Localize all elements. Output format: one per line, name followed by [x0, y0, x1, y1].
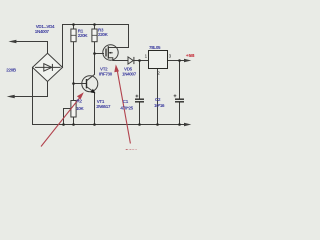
- capacitor C1 plates: [135, 99, 144, 102]
- 220V input arrow top: [8, 40, 16, 44]
- node rail emitter: [93, 123, 96, 126]
- diode VD5: [128, 57, 134, 64]
- resistor R3 body: [92, 29, 97, 42]
- node top rail R3: [93, 23, 96, 26]
- wire R3 column (top rail to gate node to collector): [94, 25, 96, 75]
- svg-text:+5В: +5В: [186, 53, 195, 59]
- wire DC- vertical from bridge left vertex to bottom rail: [32, 67, 34, 124]
- wire top rail: [63, 24, 129, 26]
- svg-text:10K: 10K: [76, 106, 84, 111]
- MOSFET VT2 channel bar: [107, 46, 109, 58]
- node +5V / C2: [178, 59, 181, 62]
- wire base lead: [74, 83, 87, 85]
- resistor R1 mid tick: [71, 34, 76, 36]
- wire 220V top lead: [12, 42, 48, 54]
- ground rail output arrow: [184, 123, 191, 127]
- wire regulator output: [168, 60, 187, 62]
- svg-text:2N6517: 2N6517: [96, 104, 111, 109]
- MOSFET VT2 substrate arrow: [109, 52, 113, 54]
- wire emitter column to ground rail: [94, 93, 96, 125]
- resistor R3 mid tick: [92, 34, 97, 36]
- svg-text:220K: 220K: [78, 33, 89, 38]
- transistor VT1 emitter with arrow: [87, 87, 94, 92]
- svg-text:220K: 220K: [98, 32, 109, 37]
- svg-text:R2: R2: [77, 98, 83, 103]
- 220V input arrow bottom: [7, 95, 15, 99]
- capacitor C1 polarity plus: [136, 95, 139, 98]
- MOSFET VT2 drain inner lead: [108, 47, 116, 49]
- node VD5 cathode / C1: [138, 59, 141, 62]
- node rail wiper: [62, 123, 65, 126]
- svg-text:IRF730: IRF730: [99, 72, 113, 77]
- wire C2 column: [179, 61, 181, 125]
- svg-text:220В: 220В: [6, 68, 17, 73]
- +5V output arrow: [184, 59, 191, 63]
- wire trimmer wiper tap: [64, 109, 71, 125]
- node base divider: [72, 82, 75, 85]
- annotation red arrow to VT1: [41, 92, 84, 146]
- wire source to diode to regulator: [113, 60, 149, 62]
- MOSFET VT2 gate bar: [105, 49, 107, 57]
- node rail R2: [72, 123, 75, 126]
- wire DC+ vertical from bridge right vertex to top rail: [62, 25, 64, 68]
- wire regulator pin2 column: [157, 69, 159, 125]
- transistor VT1 base bar: [86, 79, 88, 88]
- regulator U1 78L05 box: [149, 51, 168, 69]
- wire regulator input: [140, 60, 149, 62]
- svg-text:78L05: 78L05: [149, 45, 161, 50]
- resistor R1 body: [71, 29, 76, 42]
- annotation red arrow to VT2: [114, 64, 130, 143]
- node rail pin2: [156, 123, 159, 126]
- wire drain descent from top rail: [113, 25, 129, 48]
- node top rail R1: [72, 23, 75, 26]
- MOSFET VT2 source inner lead: [108, 58, 113, 61]
- svg-text:10*16: 10*16: [154, 103, 165, 108]
- bridge rectifier VD1..VD4 diamond: [33, 53, 63, 81]
- transistor VT1 collector: [87, 74, 95, 80]
- svg-text:1N4007: 1N4007: [122, 72, 137, 77]
- wire 220V bottom lead: [10, 82, 48, 97]
- MOSFET VT2 circle: [103, 45, 118, 60]
- svg-text:Блок: Блок: [126, 148, 138, 150]
- resistor R2 body (trimmer): [71, 101, 76, 118]
- node gate: [93, 52, 96, 55]
- svg-text:470*25: 470*25: [120, 105, 133, 110]
- capacitor C2 plates: [175, 99, 184, 102]
- svg-text:C1: C1: [123, 99, 129, 104]
- capacitor C2 polarity plus: [174, 94, 177, 97]
- transistor VT1 circle: [82, 76, 98, 92]
- bridge inner diode: [35, 64, 61, 71]
- node rail C2: [178, 123, 181, 126]
- node rail C1: [138, 123, 141, 126]
- svg-text:C2: C2: [155, 97, 161, 102]
- wire gate line: [95, 53, 104, 55]
- wire C1 column: [139, 61, 141, 125]
- svg-text:1N4007: 1N4007: [35, 29, 50, 34]
- wire R1/R2 column: [73, 25, 75, 125]
- wire bottom rail: [33, 124, 187, 126]
